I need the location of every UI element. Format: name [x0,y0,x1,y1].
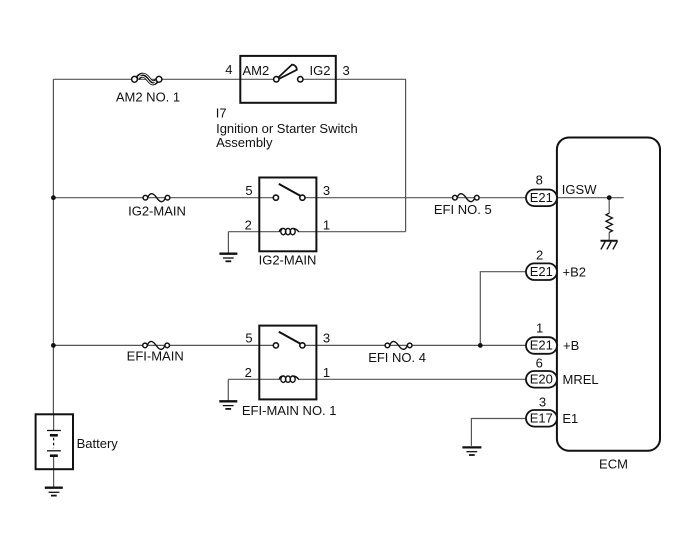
svg-text:I7: I7 [216,106,227,121]
svg-text:2: 2 [245,365,252,380]
svg-text:5: 5 [245,183,252,198]
svg-text:E21: E21 [530,338,553,353]
svg-text:MREL: MREL [563,372,599,387]
svg-text:Battery: Battery [77,436,119,451]
svg-text:E21: E21 [530,190,553,205]
svg-text:E21: E21 [530,264,553,279]
svg-text:E17: E17 [530,411,553,426]
svg-text:8: 8 [536,172,543,187]
svg-text:AM2: AM2 [243,63,270,78]
svg-text:3: 3 [343,63,350,78]
svg-text:+B2: +B2 [563,264,587,279]
svg-text:6: 6 [536,356,543,371]
svg-text:AM2 NO. 1: AM2 NO. 1 [116,89,180,104]
svg-text:4: 4 [225,62,232,77]
svg-text:3: 3 [539,395,546,410]
svg-text:E20: E20 [530,372,553,387]
svg-text:IGSW: IGSW [562,182,597,197]
svg-text:ECM: ECM [599,456,628,471]
svg-text:EFI-MAIN NO. 1: EFI-MAIN NO. 1 [242,403,337,418]
svg-text:5: 5 [245,331,252,346]
svg-text:+B: +B [563,338,579,353]
svg-text:IG2-MAIN: IG2-MAIN [128,204,186,219]
svg-text:EFI NO. 5: EFI NO. 5 [434,202,492,217]
svg-text:Assembly: Assembly [216,135,273,150]
svg-text:1: 1 [323,217,330,232]
svg-text:1: 1 [536,321,543,336]
svg-text:3: 3 [323,183,330,198]
svg-text:3: 3 [323,331,330,346]
svg-text:IG2: IG2 [310,63,331,78]
svg-text:EFI-MAIN: EFI-MAIN [127,349,184,364]
svg-text:2: 2 [536,248,543,263]
svg-text:Ignition or Starter Switch: Ignition or Starter Switch [216,121,358,136]
svg-text:EFI NO. 4: EFI NO. 4 [368,350,426,365]
svg-text:E1: E1 [562,411,578,426]
svg-text:1: 1 [323,365,330,380]
svg-text:IG2-MAIN: IG2-MAIN [259,253,317,268]
svg-text:2: 2 [245,217,252,232]
